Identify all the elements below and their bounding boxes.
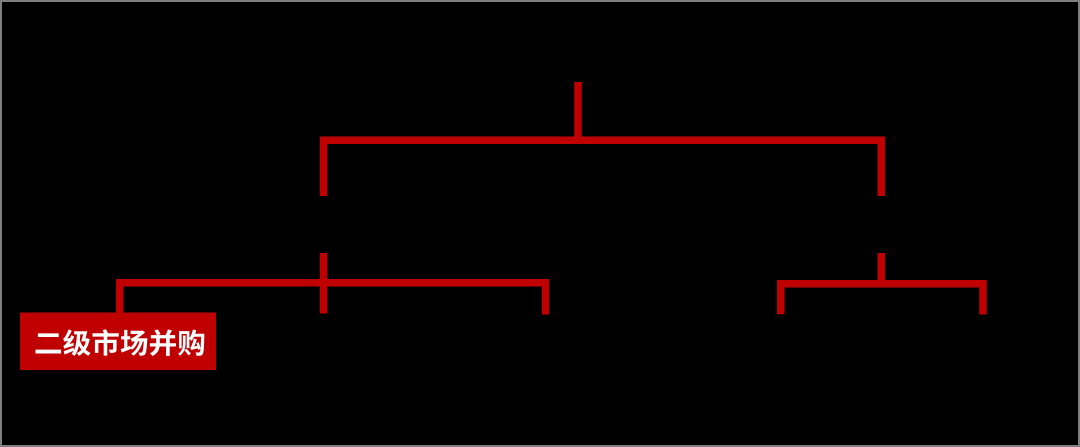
wire root stem (574, 82, 582, 144)
wire level-2 left bracket (120, 283, 546, 315)
wire level-2 right bracket (781, 284, 983, 315)
wire level-1 bracket (324, 140, 882, 196)
wire right node stem (878, 253, 886, 288)
node box 二级市场并购 (20, 313, 216, 371)
wire left node stem (320, 253, 328, 314)
